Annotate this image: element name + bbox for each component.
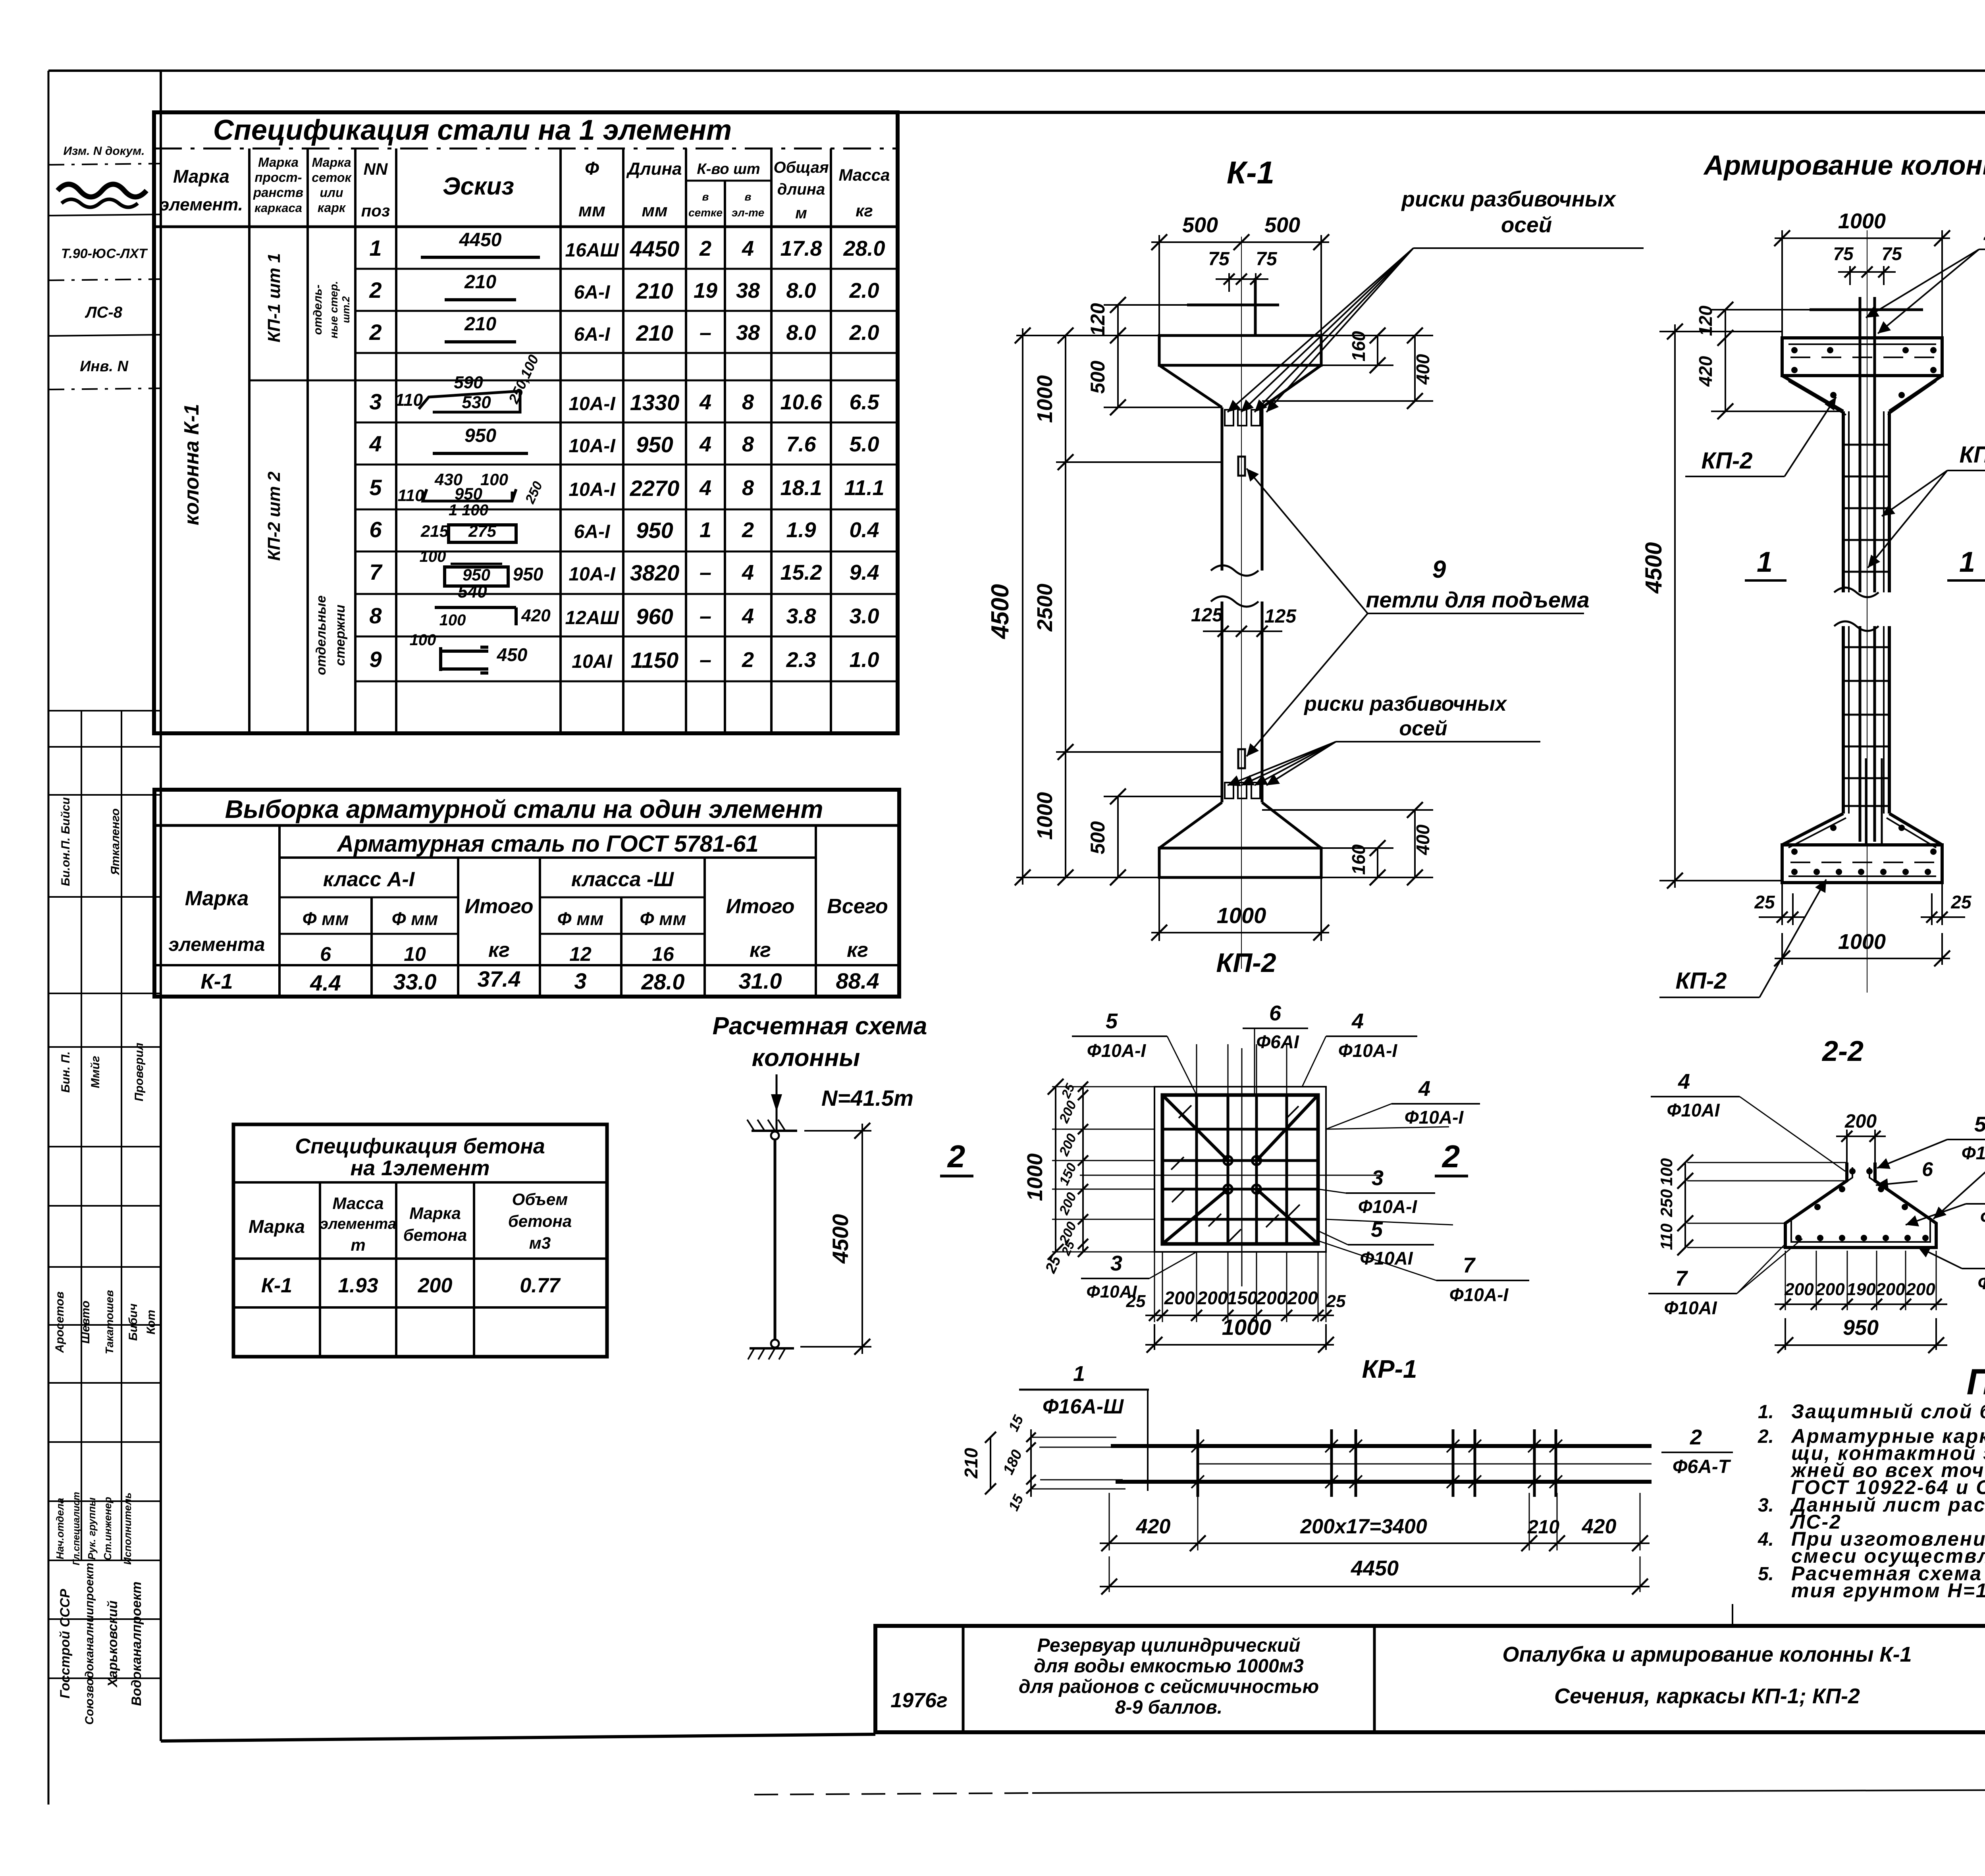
sketch pos6 closed loop 215/275 bbox=[449, 525, 516, 542]
stamp strip dividers upper bbox=[48, 164, 161, 165]
svg-text:т: т bbox=[351, 1236, 365, 1254]
steel spec table header bottom line bbox=[154, 226, 898, 228]
svg-text:прост-: прост- bbox=[254, 170, 302, 185]
mesh KR-1 extension lines bottom bbox=[1154, 1252, 1155, 1322]
svg-text:4500: 4500 bbox=[1641, 542, 1667, 594]
bar KR-1 cross ties bbox=[1197, 1429, 1199, 1497]
K-1 extension lines left bbox=[1016, 335, 1159, 336]
svg-text:3.0: 3.0 bbox=[849, 604, 879, 628]
svg-text:Нач.отдела: Нач.отдела bbox=[54, 1498, 66, 1560]
K-1 axis cross mark at top bbox=[1187, 304, 1279, 307]
svg-text:на 1элемент: на 1элемент bbox=[351, 1156, 490, 1180]
svg-text:4.4: 4.4 bbox=[310, 970, 341, 995]
K-1 dimension 400 bottom right bbox=[1414, 810, 1416, 877]
mesh KR-1 diagonals bbox=[1162, 1095, 1228, 1161]
svg-text:в: в bbox=[702, 191, 709, 203]
svg-text:Ф10А-I: Ф10А-I bbox=[1087, 1040, 1147, 1061]
svg-text:класс А-I: класс А-I bbox=[323, 868, 415, 891]
outer sheet border top bbox=[48, 69, 1985, 72]
bar KR-1 top bar bbox=[1111, 1444, 1652, 1448]
svg-text:Бибич: Бибич bbox=[127, 1303, 140, 1341]
svg-text:110: 110 bbox=[395, 390, 423, 410]
svg-text:поз: поз bbox=[361, 201, 390, 220]
steel spec table column lines bbox=[248, 148, 251, 733]
svg-text:400: 400 bbox=[1413, 354, 1433, 385]
K-1 shaft upper part bbox=[1221, 407, 1224, 571]
svg-text:100: 100 bbox=[439, 611, 466, 629]
svg-text:8: 8 bbox=[742, 476, 754, 500]
svg-text:Шевто: Шевто bbox=[79, 1301, 92, 1344]
svg-text:38: 38 bbox=[736, 279, 760, 303]
svg-text:Кот: Кот bbox=[145, 1310, 158, 1334]
svg-text:К-во шт: К-во шт bbox=[697, 161, 760, 177]
section 2-2 top dimension 200 bbox=[1846, 1130, 1848, 1163]
svg-text:200: 200 bbox=[1875, 1280, 1905, 1299]
svg-text:Марка: Марка bbox=[173, 166, 229, 187]
design scheme top support bbox=[752, 1130, 797, 1132]
svg-text:5: 5 bbox=[1106, 1009, 1118, 1033]
K-1 shaft lower part bbox=[1221, 602, 1224, 802]
svg-text:Итого: Итого bbox=[726, 895, 795, 918]
svg-text:Марка: Марка bbox=[312, 155, 351, 170]
svg-text:120: 120 bbox=[1087, 303, 1109, 336]
svg-text:2-2: 2-2 bbox=[1821, 1035, 1864, 1067]
svg-text:1.0: 1.0 bbox=[849, 648, 879, 672]
svg-text:2: 2 bbox=[699, 237, 711, 260]
mesh KR-1 extension lines left bbox=[1052, 1086, 1154, 1087]
svg-text:1330: 1330 bbox=[630, 390, 680, 415]
svg-text:элемент.: элемент. bbox=[160, 195, 243, 214]
svg-text:160: 160 bbox=[1348, 844, 1369, 875]
svg-text:590: 590 bbox=[454, 373, 483, 392]
svg-text:Защитный слой бетона принят: Защитный слой бетона принят - 2.5 мм bbox=[1791, 1400, 1985, 1423]
svg-text:колонны: колонны bbox=[752, 1044, 860, 1072]
svg-text:7: 7 bbox=[1675, 1267, 1688, 1290]
svg-text:950: 950 bbox=[455, 484, 482, 503]
svg-text:2: 2 bbox=[742, 648, 754, 672]
svg-text:125: 125 bbox=[1264, 606, 1297, 627]
svg-text:кг: кг bbox=[856, 201, 873, 220]
svg-text:9: 9 bbox=[1432, 556, 1446, 583]
svg-text:–: – bbox=[700, 321, 711, 345]
bar KR-1 bottom bar bbox=[1116, 1480, 1652, 1484]
svg-text:210: 210 bbox=[1527, 1517, 1559, 1538]
mesh KR-1 axis lines bbox=[1080, 1175, 1382, 1176]
svg-text:ранств: ранств bbox=[253, 185, 303, 200]
svg-text:Ф6А-Т: Ф6А-Т bbox=[1673, 1456, 1731, 1477]
svg-text:Спецификация стали на 1 эле: Спецификация стали на 1 элемент bbox=[213, 114, 732, 146]
svg-text:950: 950 bbox=[636, 432, 673, 457]
svg-text:200: 200 bbox=[1164, 1288, 1195, 1308]
svg-text:8: 8 bbox=[369, 603, 382, 628]
svg-text:2.3: 2.3 bbox=[786, 648, 816, 672]
reinforcement top dimension 1000 bbox=[1781, 230, 1783, 338]
svg-text:4.: 4. bbox=[1758, 1529, 1774, 1550]
svg-text:4: 4 bbox=[742, 561, 754, 584]
svg-text:риски разбивочных: риски разбивочных bbox=[1303, 692, 1507, 715]
svg-text:эл-те: эл-те bbox=[732, 206, 764, 219]
svg-text:33.0: 33.0 bbox=[393, 969, 437, 994]
svg-text:сетке: сетке bbox=[688, 206, 723, 219]
K-1 dimension 160 bottom right bbox=[1377, 848, 1378, 877]
svg-text:950: 950 bbox=[1843, 1316, 1879, 1340]
svg-text:1000: 1000 bbox=[1033, 375, 1057, 423]
svg-text:420: 420 bbox=[1582, 1515, 1617, 1538]
svg-text:Рук. группы: Рук. группы bbox=[86, 1498, 98, 1560]
steel spec table k-vo sht sub split bbox=[686, 180, 771, 182]
svg-text:6А-I: 6А-I bbox=[574, 282, 611, 303]
svg-text:К-1: К-1 bbox=[200, 970, 233, 993]
mesh KR-1 extension lines above bbox=[1196, 1044, 1197, 1095]
sketch pos9 hook bar 100/450 bbox=[439, 647, 442, 671]
svg-text:5.: 5. bbox=[1758, 1564, 1774, 1585]
svg-text:31.0: 31.0 bbox=[739, 968, 782, 993]
svg-text:450: 450 bbox=[497, 644, 528, 665]
svg-text:215: 215 bbox=[420, 522, 449, 540]
reinforcement shaft inner cover lines bbox=[1848, 411, 1850, 592]
svg-text:Ф10АI: Ф10АI bbox=[1664, 1298, 1717, 1318]
svg-text:кг: кг bbox=[750, 939, 771, 962]
svg-text:Резервуар цилиндрический: Резервуар цилиндрический bbox=[1037, 1635, 1301, 1656]
svg-text:1000: 1000 bbox=[1033, 792, 1057, 840]
rebar summary verticals bbox=[278, 825, 281, 997]
mesh KR-1 center hole corner loops bbox=[1224, 1156, 1232, 1165]
svg-text:КР-1: КР-1 bbox=[1362, 1355, 1417, 1383]
svg-text:9.4: 9.4 bbox=[849, 561, 879, 584]
svg-text:мм: мм bbox=[578, 200, 605, 220]
svg-text:4: 4 bbox=[699, 476, 711, 500]
svg-text:2270: 2270 bbox=[630, 476, 680, 501]
svg-text:7: 7 bbox=[369, 559, 383, 584]
bar KR-1 thin end lines left bbox=[1032, 1437, 1116, 1438]
mesh KR-1 main square bbox=[1162, 1095, 1318, 1244]
svg-text:420: 420 bbox=[521, 606, 551, 625]
section 2-2 inner cover line bbox=[1791, 1167, 1930, 1242]
svg-text:19: 19 bbox=[694, 279, 717, 303]
svg-text:2: 2 bbox=[1690, 1425, 1702, 1449]
svg-text:950: 950 bbox=[463, 565, 490, 584]
svg-text:ЛС-8: ЛС-8 bbox=[85, 304, 123, 321]
bar KR-1 left dim 210 bbox=[990, 1437, 991, 1489]
bar KR-1 middle thin line bbox=[1198, 1463, 1652, 1465]
svg-text:Ммйг: Ммйг bbox=[89, 1056, 102, 1088]
svg-text:Би.он.П. Бийси: Би.он.П. Бийси bbox=[59, 797, 72, 886]
svg-text:Ф10АI: Ф10АI bbox=[1360, 1248, 1413, 1269]
K-1 dimension 4500 left bbox=[1022, 328, 1023, 885]
svg-text:карк: карк bbox=[318, 201, 346, 215]
svg-text:530: 530 bbox=[462, 393, 491, 412]
svg-text:каркаса: каркаса bbox=[254, 201, 302, 215]
svg-text:Ст.инженер: Ст.инженер bbox=[102, 1497, 114, 1560]
svg-text:8.0: 8.0 bbox=[786, 321, 816, 345]
svg-text:6А-I: 6А-I bbox=[574, 521, 611, 542]
svg-text:2.0: 2.0 bbox=[849, 321, 879, 345]
svg-text:Ф10АI: Ф10АI bbox=[1086, 1282, 1137, 1301]
svg-text:100: 100 bbox=[420, 548, 446, 565]
svg-text:5: 5 bbox=[369, 475, 382, 500]
svg-text:8.0: 8.0 bbox=[786, 279, 816, 303]
svg-text:420: 420 bbox=[1695, 356, 1716, 387]
svg-text:10А-I: 10А-I bbox=[569, 436, 616, 457]
svg-text:950: 950 bbox=[636, 518, 673, 543]
svg-text:3: 3 bbox=[1110, 1251, 1122, 1275]
svg-text:3.8: 3.8 bbox=[786, 604, 816, 628]
svg-text:отдель-: отдель- bbox=[311, 285, 324, 335]
svg-text:Арматурная сталь по ГОСТ 5: Арматурная сталь по ГОСТ 5781-61 bbox=[336, 831, 759, 857]
svg-text:8-9 баллов.: 8-9 баллов. bbox=[1115, 1697, 1222, 1718]
K-1 dimension 125+125 mid bbox=[1203, 630, 1282, 632]
K-1 top dimension 500+500 bbox=[1158, 235, 1160, 335]
svg-text:1: 1 bbox=[700, 518, 711, 542]
svg-text:Итого: Итого bbox=[465, 895, 534, 918]
design scheme height dimension 4500 bbox=[804, 1130, 871, 1132]
svg-text:210: 210 bbox=[464, 272, 496, 293]
svg-text:осей: осей bbox=[1501, 212, 1552, 237]
svg-text:1: 1 bbox=[369, 235, 382, 260]
bar KR-1 callout leader vertical bbox=[1147, 1390, 1149, 1491]
svg-text:2: 2 bbox=[1442, 1139, 1460, 1174]
sketch pos2 bar 210 bbox=[445, 298, 516, 301]
svg-text:2.: 2. bbox=[1758, 1426, 1774, 1447]
svg-text:8: 8 bbox=[742, 432, 754, 456]
svg-text:100: 100 bbox=[410, 631, 436, 649]
svg-text:отдельные: отдельные bbox=[314, 596, 329, 675]
svg-text:4450: 4450 bbox=[630, 236, 680, 261]
svg-text:1150: 1150 bbox=[631, 648, 678, 673]
reinforcement anchor bars into slab bbox=[1865, 758, 1867, 845]
svg-text:–: – bbox=[700, 648, 711, 672]
reinforcement cap outline bbox=[1782, 338, 1942, 376]
svg-text:длина: длина bbox=[777, 181, 825, 198]
svg-text:сеток: сеток bbox=[312, 170, 352, 185]
svg-text:4: 4 bbox=[742, 237, 754, 260]
svg-text:500: 500 bbox=[1087, 821, 1109, 854]
svg-text:12: 12 bbox=[569, 943, 592, 965]
svg-text:6: 6 bbox=[320, 943, 331, 965]
svg-text:1000: 1000 bbox=[1217, 903, 1266, 928]
mesh KR-1 weld tick marks bbox=[1179, 1105, 1191, 1118]
svg-text:540: 540 bbox=[458, 582, 487, 602]
svg-text:NN: NN bbox=[364, 160, 388, 178]
svg-text:10А-I: 10А-I bbox=[569, 564, 616, 585]
svg-text:6: 6 bbox=[1922, 1158, 1933, 1180]
svg-text:10: 10 bbox=[404, 943, 426, 965]
reinforcement dimensions 120 and 420 left bbox=[1711, 309, 1810, 310]
svg-text:элемента: элемента bbox=[169, 934, 265, 955]
svg-text:КП-2: КП-2 bbox=[1676, 968, 1727, 994]
svg-text:210: 210 bbox=[636, 278, 673, 303]
K-1 bottom trapezoid bbox=[1159, 802, 1222, 848]
svg-text:25: 25 bbox=[1950, 892, 1972, 912]
svg-text:1 100: 1 100 bbox=[449, 501, 488, 519]
svg-text:6: 6 bbox=[369, 517, 382, 542]
svg-text:1: 1 bbox=[1073, 1362, 1085, 1386]
svg-text:класса -Ш: класса -Ш bbox=[571, 868, 674, 891]
design scheme column axis bbox=[774, 1139, 777, 1340]
K-1 bottom dimension 1000 bbox=[1158, 877, 1160, 941]
svg-text:Бин. П.: Бин. П. bbox=[59, 1051, 72, 1093]
svg-text:17.8: 17.8 bbox=[780, 237, 822, 260]
svg-text:кг: кг bbox=[488, 939, 510, 962]
svg-text:75: 75 bbox=[1208, 249, 1230, 270]
svg-text:28.0: 28.0 bbox=[641, 969, 685, 994]
svg-text:Сечения, каркасы КП-1; КП-2: Сечения, каркасы КП-1; КП-2 bbox=[1554, 1684, 1860, 1708]
svg-text:6.5: 6.5 bbox=[849, 390, 879, 414]
reinforcement bottom cover dims 25+25 bbox=[1781, 883, 1783, 925]
svg-text:Ф10А-I: Ф10А-I bbox=[1962, 1143, 1985, 1163]
section 2-2 bottom dimension 950 bbox=[1785, 1318, 1786, 1350]
K-1 dimension tier 1000/2500/1000 bbox=[1065, 335, 1066, 877]
svg-text:4450: 4450 bbox=[459, 229, 502, 251]
svg-text:2: 2 bbox=[742, 518, 754, 542]
svg-text:для районов с сейсмичностью: для районов с сейсмичностью bbox=[1019, 1676, 1319, 1697]
mesh KR-1 left bar spacing dims bbox=[1082, 1087, 1084, 1252]
reinforcement main vertical bars bbox=[1859, 297, 1862, 592]
svg-text:0.4: 0.4 bbox=[849, 518, 879, 542]
reinforcement top crossbar bbox=[1810, 308, 1923, 311]
svg-text:200: 200 bbox=[1784, 1280, 1814, 1299]
sketch pos3 bent bar 590/530/110 bbox=[419, 391, 520, 412]
svg-text:Всего: Всего bbox=[827, 895, 888, 918]
svg-text:для воды емкостью 1000м3: для воды емкостью 1000м3 bbox=[1034, 1656, 1304, 1677]
svg-text:6А-I: 6А-I bbox=[574, 324, 611, 345]
K-1 centerline bbox=[1241, 237, 1242, 969]
design scheme bottom hinge bbox=[771, 1340, 779, 1348]
svg-text:150: 150 bbox=[1227, 1288, 1258, 1308]
reinforcement slab dashed midline bbox=[1790, 862, 1934, 863]
svg-text:2500: 2500 bbox=[1033, 584, 1057, 632]
reinforcement shaft outer lines bbox=[1842, 411, 1845, 592]
svg-text:7: 7 bbox=[1463, 1253, 1476, 1277]
svg-text:3820: 3820 bbox=[630, 560, 680, 585]
svg-text:К-1: К-1 bbox=[261, 1274, 292, 1297]
svg-text:960: 960 bbox=[636, 604, 673, 629]
svg-text:4500: 4500 bbox=[828, 1214, 853, 1264]
svg-text:3: 3 bbox=[574, 968, 586, 993]
reinforcement shaft break marks bbox=[1834, 588, 1879, 597]
svg-text:Проверил: Проверил bbox=[133, 1043, 146, 1101]
svg-text:Ф16А-Ш: Ф16А-Ш bbox=[1043, 1395, 1124, 1418]
svg-text:950: 950 bbox=[464, 425, 496, 446]
reinforcement cap inner cover lines bbox=[1788, 343, 1936, 345]
svg-text:1976г: 1976г bbox=[890, 1689, 947, 1712]
svg-text:КП-2: КП-2 bbox=[1216, 948, 1276, 978]
K-1 dimension 500 bottom left bbox=[1117, 796, 1119, 877]
svg-text:4: 4 bbox=[1351, 1009, 1364, 1033]
svg-text:осей: осей bbox=[1399, 717, 1447, 740]
svg-text:м: м bbox=[795, 204, 807, 222]
svg-text:500: 500 bbox=[1182, 213, 1218, 237]
svg-text:Марка: Марка bbox=[409, 1204, 461, 1222]
mesh KR-1 internal horizontal bars bbox=[1162, 1128, 1318, 1131]
svg-text:Водоканалпроект: Водоканалпроект bbox=[129, 1581, 144, 1706]
svg-text:кг: кг bbox=[847, 939, 868, 962]
reinforcement centerline bbox=[1867, 230, 1867, 993]
svg-text:110: 110 bbox=[1657, 1224, 1676, 1250]
svg-text:Такатошев: Такатошев bbox=[103, 1290, 116, 1354]
svg-text:200: 200 bbox=[1197, 1288, 1228, 1308]
svg-text:1000: 1000 bbox=[1838, 209, 1886, 233]
sketch pos1 straight bar 4450 bbox=[421, 256, 540, 259]
reinforcement top dimension 75+75 bbox=[1849, 266, 1851, 285]
section 2-2 cap outline bbox=[1785, 1163, 1936, 1247]
svg-text:2: 2 bbox=[947, 1139, 966, 1174]
svg-text:200: 200 bbox=[1256, 1288, 1287, 1308]
svg-text:6: 6 bbox=[1269, 1001, 1282, 1025]
svg-text:Масса: Масса bbox=[333, 1194, 384, 1213]
K-1 bottom right extension lines bbox=[1321, 847, 1393, 849]
svg-text:Ф10А-I: Ф10А-I bbox=[1449, 1284, 1509, 1305]
svg-text:210: 210 bbox=[961, 1448, 981, 1479]
svg-text:38: 38 bbox=[736, 321, 760, 345]
svg-text:шт.2: шт.2 bbox=[340, 296, 352, 323]
svg-text:Ф10А-I: Ф10А-I bbox=[1980, 1207, 1985, 1228]
svg-text:200: 200 bbox=[418, 1274, 453, 1297]
reinforcement dimension 4500 left bbox=[1659, 331, 1782, 332]
svg-text:К-1: К-1 bbox=[1227, 155, 1274, 190]
svg-text:бетона: бетона bbox=[403, 1226, 467, 1244]
svg-text:Расчетная схема: Расчетная схема bbox=[713, 1012, 927, 1040]
svg-text:1000: 1000 bbox=[1838, 930, 1886, 954]
svg-text:210: 210 bbox=[464, 314, 496, 335]
bar KR-1 left dims 15/180/15 bbox=[1030, 1429, 1032, 1497]
reinforcement slab bar dots bbox=[1791, 869, 1798, 875]
svg-text:110: 110 bbox=[398, 486, 424, 505]
svg-text:тия грунтом Н=1м.: тия грунтом Н=1м. bbox=[1791, 1579, 1985, 1602]
svg-text:5.0: 5.0 bbox=[849, 432, 879, 456]
svg-text:7.6: 7.6 bbox=[786, 432, 816, 456]
svg-text:1.9: 1.9 bbox=[786, 518, 816, 542]
stamp strip signature rows bbox=[48, 710, 161, 711]
svg-text:18.1: 18.1 bbox=[780, 476, 822, 500]
svg-text:200: 200 bbox=[1906, 1280, 1935, 1299]
K-1 right cap extension lines bbox=[1321, 335, 1433, 336]
svg-text:4: 4 bbox=[369, 431, 382, 456]
reinforcement bottom trapezoid and slab bbox=[1782, 814, 1843, 845]
mesh KR-1 internal vertical bars bbox=[1195, 1095, 1198, 1244]
K-1 dimension 160 top right bbox=[1377, 335, 1378, 365]
svg-text:10.6: 10.6 bbox=[780, 390, 822, 414]
svg-text:5: 5 bbox=[1974, 1112, 1985, 1136]
svg-text:75: 75 bbox=[1833, 243, 1854, 264]
svg-text:200: 200 bbox=[1844, 1111, 1877, 1132]
svg-text:КП-2: КП-2 bbox=[1702, 448, 1753, 474]
svg-text:Харьковский: Харьковский bbox=[105, 1600, 120, 1688]
svg-text:200: 200 bbox=[1287, 1288, 1318, 1308]
mesh KR-1 extension lines right bbox=[1326, 1127, 1449, 1129]
outer sheet border bottom bbox=[754, 1793, 1032, 1795]
svg-text:Марка: Марка bbox=[249, 1216, 305, 1237]
design scheme load arrow bbox=[776, 1074, 778, 1130]
svg-text:Т.90-ЮС-ЛХТ: Т.90-ЮС-ЛХТ bbox=[61, 246, 148, 261]
svg-text:м3: м3 bbox=[529, 1234, 551, 1252]
svg-text:400: 400 bbox=[1413, 824, 1433, 855]
mesh KR-1 outer square thin bbox=[1154, 1087, 1326, 1252]
svg-text:100: 100 bbox=[480, 470, 508, 489]
svg-text:Ф10А-I: Ф10А-I bbox=[1405, 1107, 1464, 1128]
svg-text:–: – bbox=[700, 604, 711, 628]
svg-text:250: 250 bbox=[1657, 1189, 1676, 1217]
stamp strip right edge / inner frame left bbox=[160, 71, 162, 1741]
rebar summary table outer border bbox=[154, 790, 899, 997]
concrete spec verticals bbox=[319, 1182, 321, 1357]
svg-text:2: 2 bbox=[369, 320, 382, 345]
bar KR-1 dimension 4450 bbox=[1109, 1556, 1110, 1592]
svg-text:210: 210 bbox=[636, 320, 673, 345]
svg-text:Марка: Марка bbox=[185, 887, 249, 910]
svg-text:стержни: стержни bbox=[333, 605, 348, 666]
svg-text:Ф10А-I: Ф10А-I bbox=[1358, 1196, 1418, 1217]
